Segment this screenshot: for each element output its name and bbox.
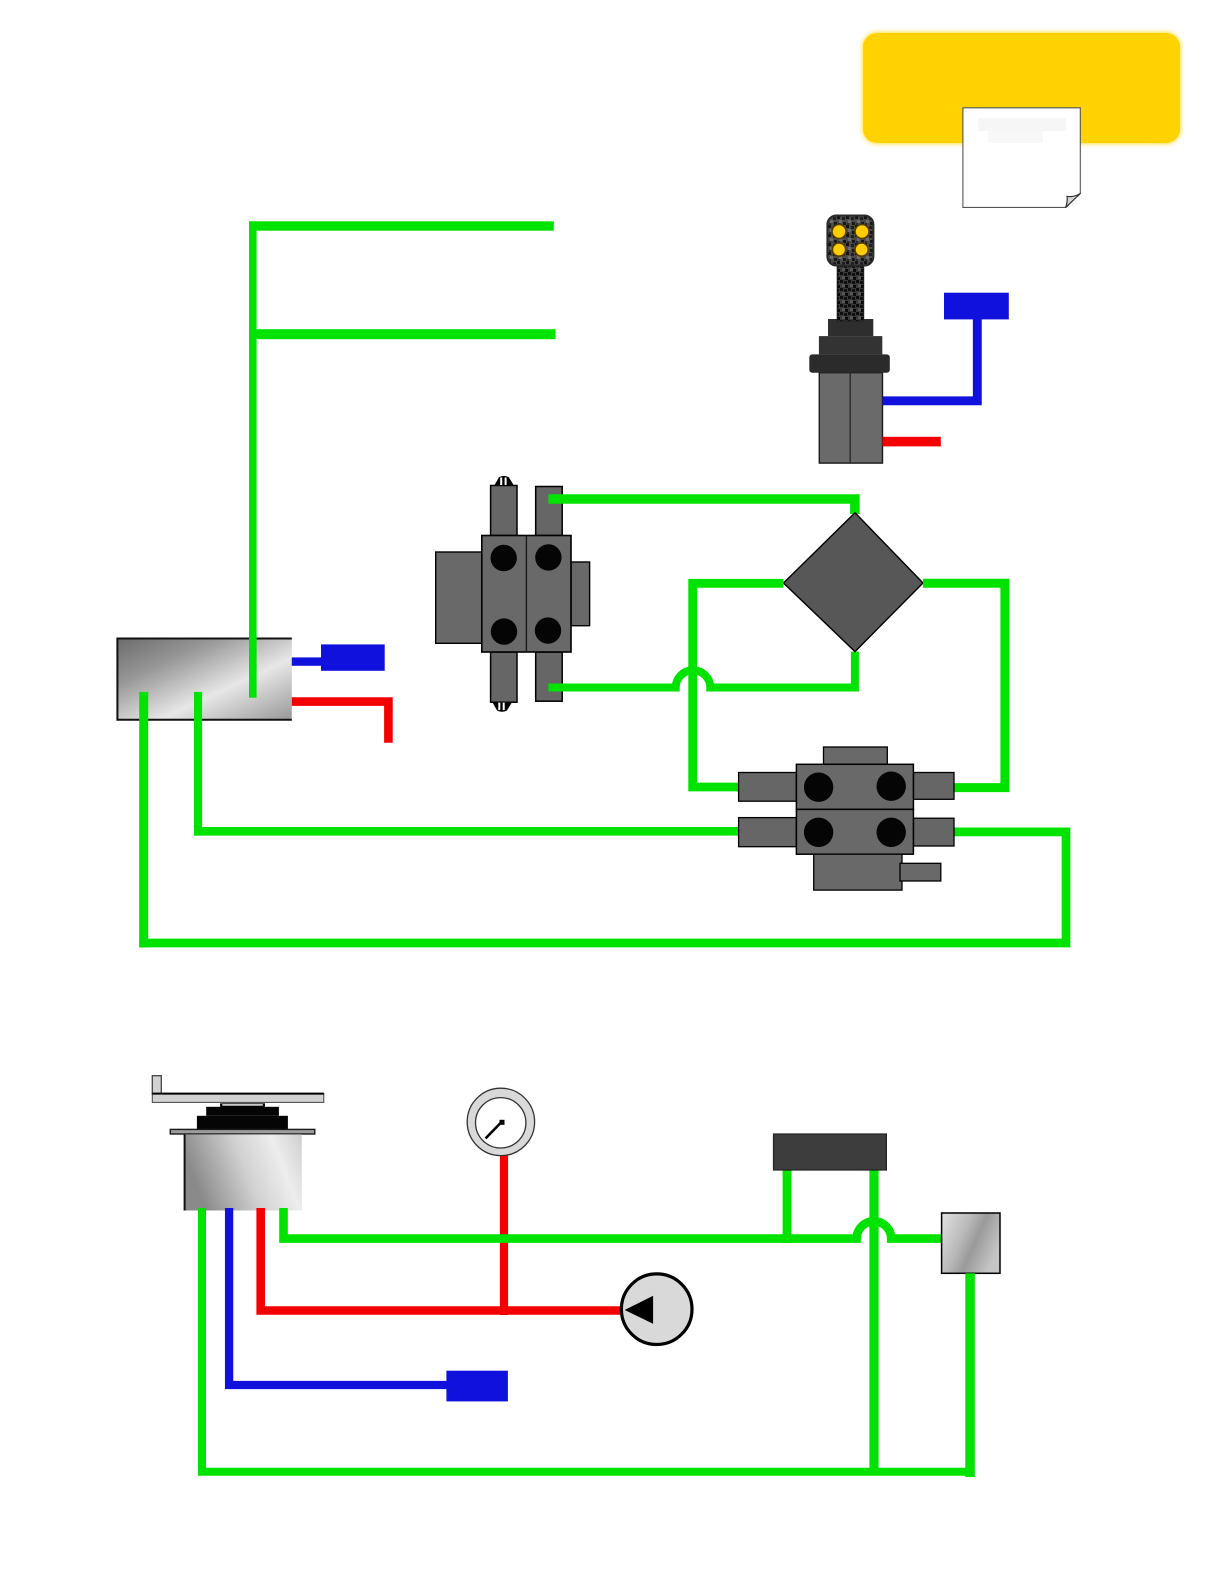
note page icon bbox=[963, 108, 1080, 208]
brake valve hole 3 bbox=[804, 818, 833, 847]
pump circle bbox=[621, 1274, 692, 1345]
wire green filter right loop bbox=[923, 583, 1005, 787]
wire red pump suction bbox=[261, 1208, 623, 1311]
brake valve stub right upper bbox=[913, 773, 954, 800]
wire green cylinder to lower loop bbox=[139, 692, 148, 948]
joystick base nut bbox=[819, 336, 882, 354]
valve stem bottom-right bbox=[536, 652, 563, 701]
motor stack top bbox=[220, 1103, 265, 1108]
joystick button 2 bbox=[855, 225, 869, 239]
strainer block bbox=[942, 1213, 1000, 1273]
joystick button 3 bbox=[832, 243, 845, 256]
motor mount tab bbox=[152, 1076, 161, 1095]
wire red solenoid bbox=[292, 702, 389, 743]
wire blue joystick bbox=[883, 319, 978, 401]
joystick head bbox=[827, 216, 873, 266]
wire blue tank bbox=[229, 1208, 448, 1385]
wire green relief vertical left bbox=[783, 1170, 792, 1243]
solenoid cylinder left bbox=[117, 639, 291, 720]
wire green tank return left bbox=[202, 1208, 974, 1472]
brake valve hole 1 bbox=[804, 773, 833, 802]
valve stem top-left bbox=[491, 486, 517, 536]
blue connector joystick bbox=[944, 293, 1009, 320]
wire green top branch bbox=[249, 221, 554, 230]
wire red gauge drop bbox=[500, 1150, 508, 1315]
relief valve block bbox=[774, 1134, 887, 1170]
motor stack base bbox=[197, 1116, 288, 1130]
wire green valve2 lower-right loop bbox=[139, 832, 1066, 943]
valve port hole 3 bbox=[491, 618, 517, 644]
filter diamond bbox=[784, 513, 924, 652]
brake valve stub left lower bbox=[739, 818, 797, 847]
joystick nut bbox=[828, 319, 873, 336]
pump mount plate bbox=[170, 1129, 314, 1134]
motor stack mid bbox=[206, 1107, 279, 1116]
brake valve top boss bbox=[824, 747, 888, 764]
yellow banner bbox=[863, 33, 1180, 143]
wire green filter left loop bbox=[693, 583, 784, 787]
valve port hole 1 bbox=[491, 545, 517, 571]
wire green second branch bbox=[249, 329, 556, 339]
brake valve bar upper bbox=[796, 764, 913, 809]
valve cap top bbox=[494, 476, 514, 486]
valve stem bottom-left bbox=[491, 652, 517, 702]
pump housing bbox=[184, 1134, 302, 1210]
wire green valve bottom loop with bridge bbox=[548, 652, 855, 688]
joystick button 4 bbox=[855, 243, 868, 256]
valve port hole 4 bbox=[535, 617, 561, 643]
blue connector solenoid bbox=[321, 644, 385, 670]
pressure gauge bbox=[467, 1088, 534, 1155]
brake valve bottom boss bbox=[814, 854, 902, 890]
valve right plate bbox=[571, 562, 590, 626]
blue connector tank bbox=[446, 1371, 508, 1402]
wire green pressure run with bridge bbox=[284, 1208, 942, 1239]
wire green supply vertical bbox=[249, 221, 257, 697]
valve body bbox=[482, 536, 571, 653]
wire green valve to filter top bbox=[548, 499, 855, 514]
brake valve hole 4 bbox=[877, 818, 906, 847]
wire green cylinder to valve port bbox=[194, 692, 202, 836]
wire blue solenoid bbox=[292, 657, 327, 665]
joystick shaft bbox=[837, 263, 864, 321]
valve stem top-right bbox=[536, 487, 563, 536]
brake valve bar lower bbox=[796, 809, 913, 854]
joystick body bbox=[819, 373, 882, 463]
wire green strainer drop bbox=[965, 1273, 975, 1477]
valve left plate bbox=[436, 552, 482, 643]
valve port hole 2 bbox=[535, 544, 561, 570]
brake valve hole 2 bbox=[877, 772, 906, 801]
wire green relief vertical right bbox=[869, 1170, 878, 1472]
brake valve stub right lower bbox=[913, 818, 954, 846]
brake valve lower bbox=[739, 747, 954, 890]
brake valve stub left upper bbox=[739, 773, 797, 802]
wire green valve2 lower-left run bbox=[194, 827, 744, 836]
brake valve drain stub bbox=[900, 863, 941, 881]
joystick collar bbox=[809, 354, 890, 372]
motor mount plate bbox=[152, 1093, 323, 1102]
valve cap bottom bbox=[492, 702, 512, 712]
joystick button 1 bbox=[832, 225, 846, 239]
control valve upper bbox=[436, 476, 590, 712]
wire red joystick bbox=[883, 437, 941, 447]
